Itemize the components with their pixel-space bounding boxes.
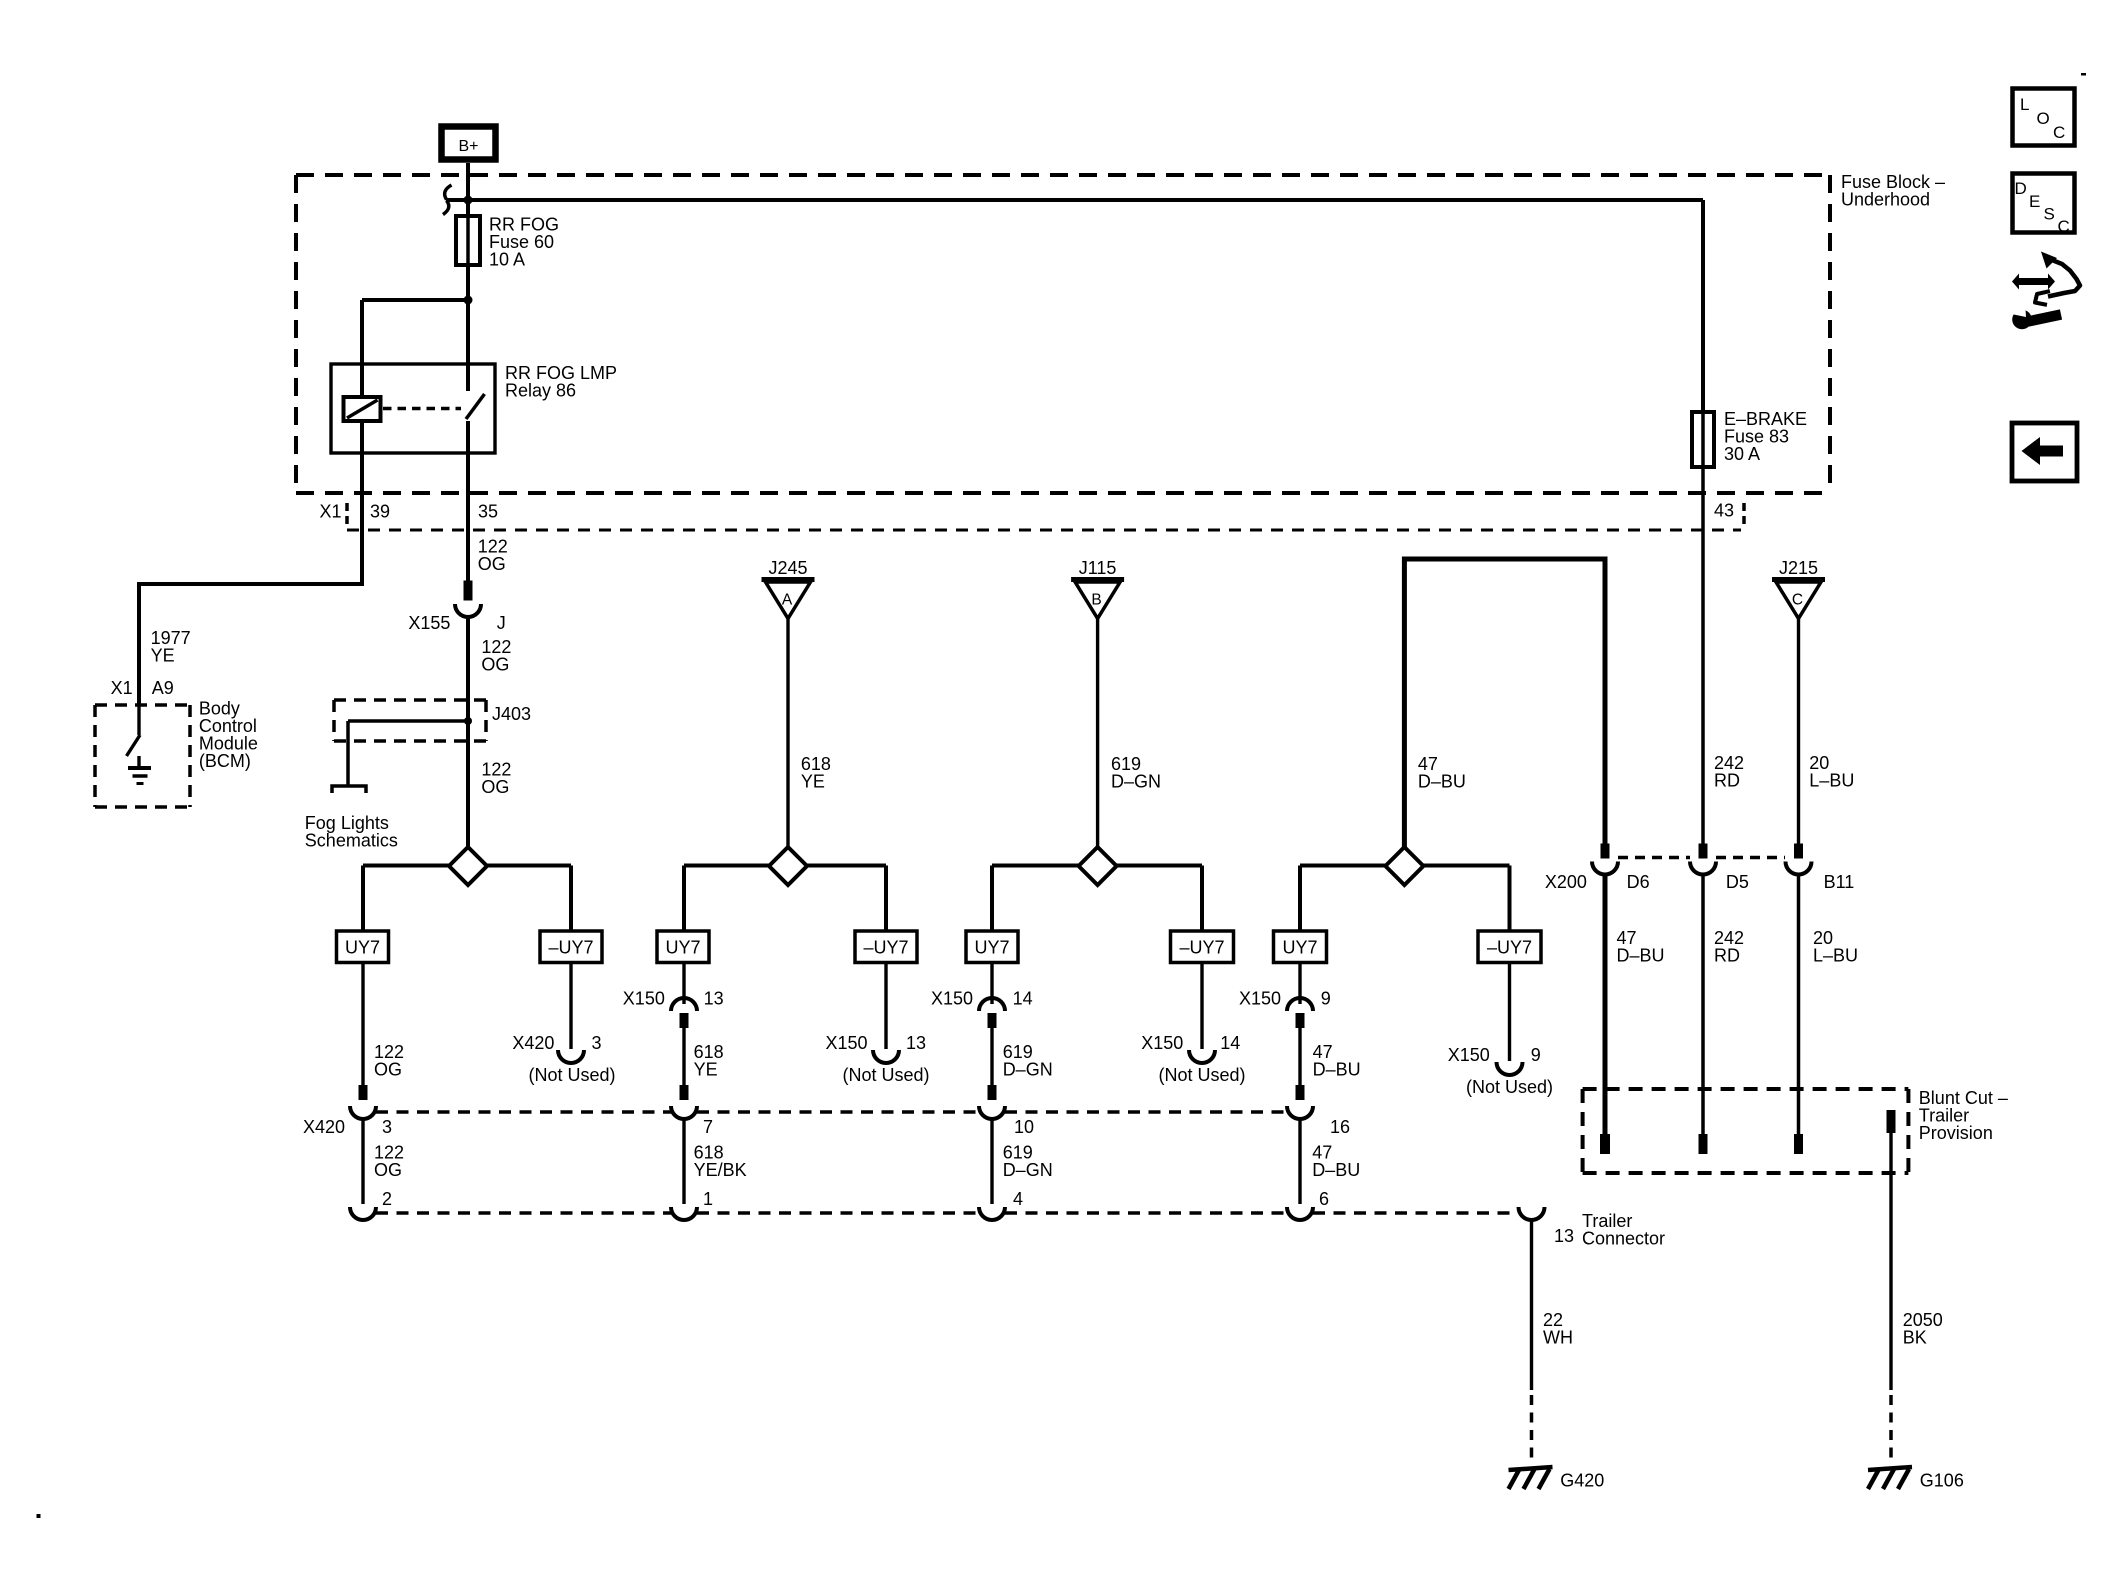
connector X420 pin3 not used cup [558,1050,584,1063]
label X420 3 not used [512,1033,615,1085]
label Trailer Connector [1582,1211,1665,1249]
svg-text:L–BU: L–BU [1813,946,1858,966]
svg-text:X155: X155 [408,613,450,633]
wire X420 7 to 1 [682,1119,685,1204]
wire splice branch 3 [992,866,1202,932]
svg-text:D–GN: D–GN [1003,1160,1053,1180]
svg-text:13: 13 [906,1033,926,1053]
wire label 242 RD a [1714,753,1744,791]
svg-text:J245: J245 [768,558,807,578]
wire label 619 D-GN [1111,754,1161,792]
wire fuse60 to relay switch [466,265,470,391]
wire label 47 D-BU c [1313,1042,1361,1080]
connector X150 pin14 [979,998,1005,1028]
wire label 242 RD b [1714,928,1744,966]
svg-text:(BCM): (BCM) [199,751,251,771]
ground G420 [1509,1467,1605,1491]
svg-text:13: 13 [1554,1226,1574,1246]
svg-text:D–BU: D–BU [1313,1060,1361,1080]
svg-text:C: C [2058,217,2070,236]
ground G106 [1868,1467,1964,1491]
wire X420 3 to 2 [361,1119,364,1204]
pin 2 [382,1189,392,1209]
connector X420 pin7 cup [671,1085,697,1119]
svg-text:X150: X150 [1239,989,1281,1009]
svg-text:WH: WH [1543,1328,1573,1348]
label RR FOG Fuse 60 10 A [489,215,559,270]
wire -UY7-2 stub [884,963,887,1050]
wire dashed to G106 [1889,1395,1893,1458]
svg-text:G106: G106 [1920,1471,1964,1491]
pin 4 [1013,1189,1023,1209]
label X1 [320,502,342,522]
icon DESC button [2013,174,2075,237]
svg-text:6: 6 [1319,1189,1329,1209]
svg-text:OG: OG [478,554,506,574]
wire label 618 YE [801,754,831,792]
svg-text:B: B [1091,592,1101,609]
wire 47 D-BU loop [1404,559,1605,847]
blunt cut tip 2050 BK [1887,1110,1896,1133]
connector J215 triangle C [1772,558,1825,619]
wire J115 down [1096,618,1099,847]
label Fog Lights Schematics [305,813,398,851]
icon LOC button [2013,89,2075,146]
wire label 122 OG e [374,1143,404,1181]
label X420 row [303,1117,345,1137]
fuse F83 E-BRAKE [1692,412,1714,467]
svg-text:D5: D5 [1726,872,1749,892]
connector X200 D6 [1592,844,1618,875]
label X200 [1545,872,1587,892]
connector J115 triangle B [1071,558,1124,619]
pin 1 [703,1189,713,1209]
wire 2050 BK [1889,1133,1892,1390]
svg-text:S: S [2044,205,2055,224]
svg-text:D–BU: D–BU [1617,946,1665,966]
connector trailer row2 dashed line [376,1211,1518,1215]
blunt cut tip 20 L-BU [1794,1134,1803,1154]
svg-text:3: 3 [592,1033,602,1053]
svg-text:A9: A9 [152,678,174,698]
wire UY7-3 to X150 [990,963,993,1005]
svg-text:D6: D6 [1627,872,1650,892]
label RR FOG LMP Relay 86 [505,363,617,401]
wire J403 branch to fog lights [348,721,468,786]
svg-text:39: 39 [370,502,390,522]
connector X150 pin13 not used cup [873,1050,899,1063]
svg-text:D: D [2015,179,2027,198]
svg-text:UY7: UY7 [665,938,700,958]
node junction J403 [464,717,472,725]
svg-text:L–BU: L–BU [1809,771,1854,791]
option box -UY7 at x1509 [1478,931,1541,963]
node junction relay branch [464,296,473,305]
label Body Control Module BCM [199,699,258,772]
svg-text:14: 14 [1220,1033,1240,1053]
wire label 47 D-BU b [1617,928,1665,966]
relay switch blade [466,394,485,419]
speck top right [2081,73,2086,76]
connector X150 pin14 not used cup [1189,1050,1215,1063]
label Blunt Cut Trailer Provision [1919,1088,2008,1143]
wire label 47 D-BU a [1418,754,1466,792]
label X155 pin J [408,613,505,633]
pin B11 [1824,872,1855,892]
pin D5 [1726,872,1749,892]
svg-text:Underhood: Underhood [1841,190,1930,210]
fuse block underhood dashed box [296,175,1830,493]
pin 35 [478,502,498,522]
off-page reference bracket [332,786,366,793]
wire splice branch 1 [363,866,571,932]
splice S3 diamond [1079,847,1117,885]
pin 16 [1330,1117,1350,1137]
blunt cut tip 47 D-BU [1600,1134,1610,1154]
connector X150 pin9 [1287,998,1313,1028]
option box UY7 at x362 [337,931,389,963]
blunt cut trailer provision dashed box [1583,1089,1909,1173]
svg-text:J403: J403 [492,704,531,724]
svg-text:A: A [782,592,793,609]
svg-text:16: 16 [1330,1117,1350,1137]
label X150 13 [623,989,724,1009]
svg-text:X150: X150 [931,989,973,1009]
svg-text:3: 3 [382,1117,392,1137]
svg-text:10: 10 [1014,1117,1034,1137]
svg-text:D–BU: D–BU [1312,1160,1360,1180]
connector X420 pin1 cup [671,1207,697,1220]
connector X420 pin4 cup [979,1207,1005,1220]
svg-text:7: 7 [703,1117,713,1137]
svg-text:X150: X150 [826,1033,868,1053]
wire X150 to X420 pin10 [990,1028,993,1085]
wire label 47 D-BU d [1312,1143,1360,1181]
svg-text:–UY7: –UY7 [1487,938,1532,958]
svg-text:(Not Used): (Not Used) [1158,1065,1245,1085]
wire D6 to blunt cut [1603,875,1608,1135]
relay K86 RR FOG LMP box [331,364,495,453]
wire bus down to fuse83 [1701,200,1705,412]
svg-text:YE: YE [694,1060,718,1080]
svg-text:OG: OG [481,777,509,797]
connector X1 left tick [345,503,349,524]
wire label 20 L-BU b [1813,928,1858,966]
svg-text:(Not Used): (Not Used) [528,1065,615,1085]
svg-text:Provision: Provision [1919,1123,1993,1143]
label X150 14 [931,989,1033,1009]
connector J245 triangle A [762,558,815,619]
svg-text:X150: X150 [1141,1033,1183,1053]
connector X420 row1 dashed line [376,1110,1287,1114]
svg-text:YE/BK: YE/BK [694,1160,747,1180]
wire X155 to J403 [466,617,470,721]
connector X200 D5 [1690,844,1716,875]
pin X1 A9 [111,678,174,698]
connector X420 pin3 cup [350,1085,376,1119]
svg-text:RD: RD [1714,946,1740,966]
wire J403 to splice diamond [466,721,470,847]
svg-text:J115: J115 [1079,558,1117,578]
label J403 [492,704,531,724]
fuse F60 RR FOG [456,216,480,265]
wire label 618 YE b [694,1042,724,1080]
wire J245 down [786,618,789,847]
connector X420 pin6 cup [1287,1207,1313,1220]
pin D6 [1627,872,1650,892]
wire D5 to blunt cut [1701,875,1705,1135]
wire -UY7-4 stub [1508,963,1511,1062]
pin 13 trailer [1554,1226,1574,1246]
wire UY7-4 to X150 [1298,963,1301,1005]
connector X420 pin16 cup [1287,1085,1313,1119]
svg-text:(Not Used): (Not Used) [842,1065,929,1085]
option box -UY7 at x571 [540,931,602,963]
connector X155 [455,581,481,618]
svg-text:G420: G420 [1560,1471,1604,1491]
svg-text:–UY7: –UY7 [863,938,908,958]
label X150 9 [1239,989,1331,1009]
wire -UY7-1 stub [569,963,572,1050]
node junction at B+ bus [464,196,473,205]
relay coil [344,397,381,421]
wire label 1977 YE [151,628,191,666]
svg-text:C: C [2053,123,2065,142]
svg-text:OG: OG [374,1160,402,1180]
pin 3 [382,1117,392,1137]
svg-text:13: 13 [704,989,724,1009]
wire label 2050 BK [1903,1310,1943,1348]
wire X150 to X420 pin16 [1298,1028,1301,1085]
svg-text:X200: X200 [1545,872,1587,892]
fusible-link squiggle [443,185,452,215]
pin 7 [703,1117,713,1137]
wire UY7-1 to X420 [361,963,364,1086]
label X150 14 not used [1141,1033,1245,1085]
svg-text:OG: OG [481,655,509,675]
label X150 13 not used [826,1033,930,1085]
svg-text:X420: X420 [512,1033,554,1053]
icon double arrow [2012,274,2055,290]
splice S2 diamond [769,847,807,885]
svg-text:X150: X150 [623,989,665,1009]
wire -UY7-3 stub [1200,963,1203,1050]
svg-text:D–BU: D–BU [1418,772,1466,792]
svg-text:Schematics: Schematics [305,831,398,851]
option box UY7 at x683 [657,931,709,963]
svg-text:1: 1 [703,1189,713,1209]
svg-text:RD: RD [1714,771,1740,791]
svg-text:–UY7: –UY7 [548,938,593,958]
connector X150 pin13 [671,998,697,1028]
icon back arrow button [2012,423,2077,481]
wire X420 10 to 4 [990,1119,993,1204]
connector X420 pin2 cup [350,1207,376,1220]
svg-text:UY7: UY7 [974,938,1009,958]
svg-text:UY7: UY7 [345,938,380,958]
option box -UY7 at x1202 [1171,931,1234,963]
option box UY7 at x1300 [1274,931,1327,963]
svg-text:J: J [497,613,506,633]
svg-text:Relay 86: Relay 86 [505,381,576,401]
wire label 20 L-BU a [1809,753,1854,791]
svg-text:E: E [2029,192,2040,211]
wire B+ down to junction [466,163,470,216]
wire splice branch 4 [1300,866,1510,932]
wire UY7-2 to X150 [682,963,685,1005]
wire J215 down to X200 B11 [1797,618,1800,844]
icon wrench [2004,305,2061,330]
pin 39 [370,502,390,522]
svg-text:D–GN: D–GN [1003,1060,1053,1080]
svg-text:10 A: 10 A [489,250,525,270]
label X150 9 not used [1448,1045,1553,1097]
svg-text:O: O [2037,109,2050,128]
splice S1 diamond [449,847,487,885]
wire X150 to X420 pin7 [682,1028,685,1085]
blunt cut tip 242 RD [1699,1134,1708,1154]
svg-text:X420: X420 [303,1117,345,1137]
pin 6 [1319,1189,1329,1209]
svg-text:14: 14 [1013,989,1033,1009]
wire label 619 D-GN b [1003,1042,1053,1080]
wire bus across fuse block [446,198,1703,202]
BCM internal switch [127,705,141,768]
connector X200 dashed links [1618,856,1785,860]
svg-text:9: 9 [1531,1045,1541,1065]
svg-text:X1: X1 [111,678,133,698]
icon curved arrow [2035,252,2080,305]
svg-text:43: 43 [1714,501,1734,521]
svg-text:C: C [1792,592,1803,609]
connector trailer pin13 cup [1519,1207,1545,1220]
svg-text:L: L [2020,95,2029,114]
svg-text:OG: OG [374,1060,402,1080]
option box UY7 at x992 [966,931,1018,963]
wire dashed to G420 [1530,1395,1534,1458]
wire label 619 D-GN c [1003,1143,1053,1181]
svg-text:B11: B11 [1824,872,1855,892]
power feed B+ symbol [442,127,496,160]
wire label 122 OG c [481,760,511,798]
connector X420 pin10 cup [979,1085,1005,1119]
wire label 618 YE-BK [694,1143,747,1181]
svg-text:J215: J215 [1779,558,1818,578]
pin 10 [1014,1117,1034,1137]
connector X1 row dashed line [347,529,1741,532]
splice pack J403 dashed box [334,700,486,741]
relay actuation dashed link [383,407,461,411]
svg-text:D–GN: D–GN [1111,772,1161,792]
ground inside BCM [128,768,151,784]
splice S4 diamond [1385,847,1423,885]
wire relay switch to X1 pin35 [466,421,470,581]
svg-text:30 A: 30 A [1724,444,1760,464]
svg-text:YE: YE [151,646,175,666]
label E-BRAKE Fuse 83 30 A [1724,409,1807,464]
svg-text:9: 9 [1321,989,1331,1009]
wire 22 WH [1530,1220,1533,1390]
wire label 22 WH [1543,1310,1573,1348]
svg-text:BK: BK [1903,1328,1927,1348]
connector X1 right tick [1742,503,1746,524]
wire X420 16 to 6 [1298,1119,1301,1204]
svg-text:YE: YE [801,772,825,792]
wire B11 to blunt cut [1797,875,1801,1135]
svg-text:X150: X150 [1448,1045,1490,1065]
wire label 122 OG d [374,1042,404,1080]
svg-text:35: 35 [478,502,498,522]
option box -UY7 at x886 [855,931,917,963]
wire label 122 OG a [478,537,508,575]
wire fuse83 down to X200 D5 [1701,467,1705,844]
svg-text:–UY7: –UY7 [1179,938,1224,958]
pin 43 [1714,501,1734,521]
wire branch to relay coil [362,300,468,397]
wire relay coil to X1 pin39 [139,421,362,705]
svg-text:UY7: UY7 [1282,938,1317,958]
svg-text:2: 2 [382,1189,392,1209]
svg-text:(Not Used): (Not Used) [1466,1077,1553,1097]
speck bottom left [37,1514,41,1518]
connector X200 B11 [1786,844,1812,875]
connector X150 pin9 not used cup [1497,1062,1523,1075]
svg-text:B+: B+ [458,138,478,155]
svg-text:4: 4 [1013,1189,1023,1209]
wire splice branch 2 [684,866,886,932]
label Fuse Block - Underhood [1841,172,1945,210]
svg-text:Connector: Connector [1582,1229,1665,1249]
module BCM dashed box [95,705,190,807]
svg-text:X1: X1 [320,502,342,522]
wire label 122 OG b [481,637,511,675]
